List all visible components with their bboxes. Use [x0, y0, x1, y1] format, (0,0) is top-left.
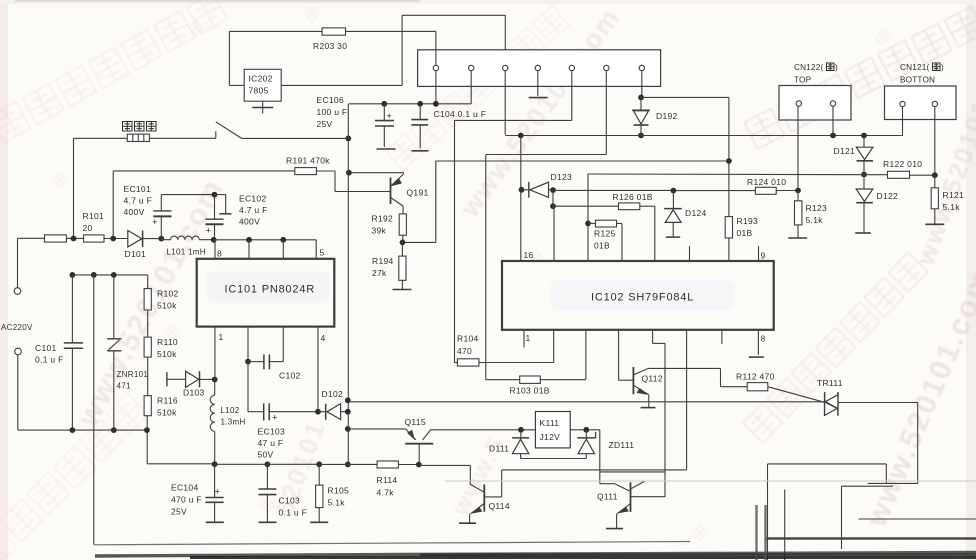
resistor R124	[755, 187, 776, 194]
wire switch to rail	[242, 137, 349, 139]
svg-text:R123: R123	[806, 203, 828, 213]
transistor Q191 (PNP)	[390, 178, 392, 205]
node rail2 C103	[265, 461, 271, 467]
wire R122 right	[910, 174, 935, 176]
diode D102	[318, 411, 326, 413]
node rail2 EC104	[212, 461, 218, 467]
node D102 out	[345, 409, 351, 415]
pin 2 circle	[469, 65, 474, 70]
svg-text:EC102: EC102	[239, 194, 267, 204]
wire Q112 emitter ground	[648, 395, 650, 408]
svg-text:J12V: J12V	[540, 432, 561, 442]
resistor R191	[295, 168, 317, 175]
svg-text:9: 9	[761, 251, 766, 261]
wire line A to IC pin	[686, 331, 688, 470]
wire R103 to IC pin	[540, 379, 586, 381]
switch S arm	[216, 122, 242, 139]
node D121 top	[861, 133, 867, 139]
wire R122 line	[864, 174, 888, 176]
node y275 mid	[91, 272, 97, 278]
node D123 right lower	[550, 203, 556, 209]
svg-text:R101: R101	[83, 211, 105, 221]
node D123 right upper	[550, 187, 556, 193]
connector CN121 box	[885, 86, 957, 120]
wire y275 line	[72, 274, 147, 276]
svg-text:5.1k: 5.1k	[806, 215, 824, 225]
capacitor C101	[64, 342, 83, 344]
svg-text:C104 0.1 u F: C104 0.1 u F	[434, 109, 487, 119]
svg-text:TR111: TR111	[817, 378, 843, 388]
wire D102 to Q115	[348, 428, 406, 430]
svg-text:16: 16	[524, 250, 534, 260]
svg-text:Q111: Q111	[597, 492, 618, 502]
node rail1 R116	[144, 427, 150, 433]
diode D103 anode bar	[166, 372, 168, 386]
wire IC pin jog to Q111 collector	[652, 331, 654, 343]
svg-text:50V: 50V	[258, 450, 274, 460]
capacitor C104	[419, 104, 421, 120]
wire R191 to Q191 base	[316, 170, 335, 172]
svg-text:400V: 400V	[124, 207, 145, 217]
resistor R123	[797, 191, 799, 201]
svg-text:+: +	[272, 413, 278, 424]
svg-text:8: 8	[217, 249, 222, 259]
wire R126 line	[553, 205, 619, 207]
svg-text:R203 30: R203 30	[313, 41, 347, 51]
scan artifact dark band	[95, 553, 976, 557]
wire R101 to D101	[104, 238, 128, 240]
svg-text:4: 4	[321, 333, 326, 343]
pin stub IC101 bottom2	[247, 327, 249, 362]
wire R203 top line y31	[229, 30, 436, 32]
wire R191 line	[113, 170, 295, 172]
scan tint IC102	[550, 280, 735, 310]
wire bottom return y544.8	[93, 274, 95, 276]
inductor L102	[214, 380, 216, 396]
wire y173.8 sense line	[588, 173, 864, 176]
svg-text:470 u F: 470 u F	[171, 495, 202, 505]
pin stub IC102 top x689.5	[689, 246, 691, 261]
resistor R126	[619, 203, 640, 210]
svg-text:D192: D192	[656, 111, 678, 121]
svg-text:+: +	[206, 226, 212, 237]
diode D101	[128, 231, 142, 247]
wire line A y469.9	[502, 469, 687, 471]
node R121 top	[932, 172, 938, 178]
wire heater feed vertical x73.5	[73, 138, 75, 238]
wire rail2 left	[147, 463, 214, 465]
node y275 ZNR	[111, 272, 117, 278]
pin 3 circle	[503, 65, 508, 70]
svg-text:C102: C102	[279, 371, 301, 381]
node pin1 rail	[433, 101, 439, 107]
svg-text:): )	[941, 63, 944, 72]
wire EC101-EC102 top link	[161, 194, 214, 196]
wire scan fold line	[445, 480, 976, 482]
wire R112 to TR111 diagonal	[768, 387, 825, 403]
wire right lower line	[859, 518, 976, 520]
pin 5 circle	[569, 65, 574, 70]
node bus pin16 branch	[518, 133, 524, 139]
svg-text:R122 010: R122 010	[883, 159, 922, 169]
svg-text:R110: R110	[157, 337, 178, 347]
svg-text:20: 20	[83, 223, 93, 233]
wire CN121 pin1 down	[902, 107, 904, 136]
svg-text:R105: R105	[328, 486, 350, 496]
ground IC202	[262, 101, 264, 107]
pin IC102 to Q112 base	[618, 331, 620, 380]
wire IC202 right to top loop	[281, 84, 402, 86]
svg-text:100 u F: 100 u F	[317, 107, 348, 117]
op-amp U-IC202 regulator box	[244, 69, 281, 101]
pin 4 circle	[535, 65, 540, 70]
svg-text:Q114: Q114	[489, 501, 510, 511]
diode ZD111 (zener)	[585, 430, 587, 438]
wire Q115base to Q114	[419, 464, 471, 466]
diode D122	[863, 175, 865, 189]
svg-text:470: 470	[457, 346, 472, 356]
ground Q112	[641, 407, 656, 409]
ground R123	[788, 237, 807, 239]
terminal AC220V lower	[15, 348, 22, 355]
node D111 top	[518, 427, 524, 433]
svg-text:D122: D122	[877, 191, 899, 201]
node C104 rail	[417, 101, 423, 107]
svg-text:01B: 01B	[594, 241, 610, 251]
wire pin6 jog left down	[605, 71, 607, 155]
svg-text:25V: 25V	[317, 119, 333, 129]
resistor R101	[84, 235, 104, 242]
svg-text:R124 010: R124 010	[747, 177, 786, 187]
node IC101 top pin6 feed	[246, 237, 252, 243]
scan tint IC101	[206, 271, 330, 303]
wire pin4 to ground	[537, 71, 539, 96]
wire pin1 vertical	[435, 31, 437, 65]
node rail1 ZNR	[111, 427, 117, 433]
node R125 left	[585, 221, 591, 227]
svg-text:Q112: Q112	[642, 374, 663, 384]
svg-text:AC220V: AC220V	[1, 323, 33, 332]
wire R124 left	[673, 190, 755, 192]
svg-text:R116: R116	[157, 396, 178, 406]
node rail1 C101	[70, 427, 76, 433]
node rail2 R105	[316, 461, 322, 467]
resistor R116	[144, 396, 151, 416]
svg-text:C101: C101	[35, 343, 57, 353]
node R123 top	[795, 188, 801, 194]
svg-text:4.7 u F: 4.7 u F	[239, 205, 268, 215]
resistor R104	[455, 362, 458, 364]
pin stub IC101 top mid1	[248, 240, 250, 259]
wire R102-R110	[147, 310, 149, 337]
resistor R121	[934, 175, 936, 188]
label 发热盘 (heater plate)	[123, 122, 133, 132]
op-amp U-IC101 box	[197, 259, 335, 327]
pin stub IC101 bottom1	[214, 327, 216, 380]
wire y161 line	[436, 160, 729, 162]
wire heater line left	[74, 137, 128, 139]
ground R194	[393, 289, 412, 291]
node EC102 top	[212, 192, 218, 198]
wire +V rail y103.8	[349, 103, 471, 105]
wire AC line	[18, 237, 45, 239]
wire load box right	[885, 464, 887, 483]
wire pin2 down	[470, 71, 472, 104]
svg-text:D124: D124	[685, 208, 707, 218]
wire fuse to R101	[66, 237, 83, 239]
wire +18V long line y401.8	[348, 401, 824, 403]
svg-text:EC103: EC103	[258, 427, 286, 437]
svg-text:1: 1	[219, 332, 224, 342]
svg-text:D101: D101	[125, 249, 147, 259]
diode D111 (zener)	[520, 430, 522, 438]
svg-text:7805: 7805	[249, 86, 269, 96]
svg-text:5: 5	[320, 248, 325, 258]
resistor R194	[401, 242, 403, 256]
node Q191 emitter rail	[346, 170, 352, 176]
wire heater line mid	[149, 137, 215, 139]
pin CN122-1	[796, 101, 801, 106]
svg-text:+: +	[215, 487, 221, 498]
svg-text:L102: L102	[221, 406, 240, 415]
svg-text:400V: 400V	[239, 217, 260, 227]
node y275 C101	[70, 272, 76, 278]
svg-text:EC104: EC104	[171, 483, 199, 493]
switch S contact	[215, 131, 217, 138]
wire C101 column	[71, 275, 73, 343]
wire pin16 vertical	[520, 136, 522, 262]
svg-text:R121: R121	[943, 190, 965, 200]
resistor R203	[322, 28, 345, 35]
varistor ZNR101	[113, 275, 115, 339]
svg-text:8: 8	[761, 334, 766, 344]
capacitor C103	[266, 464, 268, 488]
wire R125 right down	[617, 223, 623, 225]
diode D123	[522, 189, 529, 191]
wire inner vertical	[784, 490, 786, 560]
svg-text:510k: 510k	[157, 408, 177, 418]
ground Q111	[606, 528, 623, 530]
wire rail2 seg3	[267, 463, 319, 465]
wire D123 node to IC pin	[553, 206, 555, 261]
svg-text:R114: R114	[377, 475, 398, 485]
transistor Q114 (NPN mirrored)	[470, 484, 483, 491]
wire Q191 emitter	[349, 172, 404, 174]
svg-text:4.7k: 4.7k	[377, 488, 395, 498]
svg-text:25V: 25V	[171, 507, 187, 517]
transistor Q112 (NPN)	[632, 367, 634, 394]
svg-text:R104: R104	[457, 334, 479, 344]
wire rail2 seg5	[398, 464, 418, 466]
node R192 R194 junction	[400, 240, 406, 246]
svg-text:01B: 01B	[737, 228, 753, 238]
node D192 bottom	[638, 133, 644, 139]
svg-text:IC101 PN8024R: IC101 PN8024R	[225, 284, 316, 296]
terminal AC220V upper	[14, 288, 21, 295]
svg-text:510k: 510k	[157, 349, 177, 359]
capacitor EC104	[214, 464, 216, 497]
wire R124 right	[776, 190, 798, 192]
node D103 L102	[212, 377, 218, 383]
pin stub IC102 top 9	[758, 246, 760, 261]
triac TR111	[824, 392, 826, 416]
pin IC102 pin8 ground	[757, 331, 759, 355]
diode D192	[640, 97, 642, 110]
pin 7 circle	[639, 65, 644, 70]
wire R126 right down	[640, 205, 655, 207]
svg-text:R193: R193	[737, 216, 759, 226]
wire relay right down	[599, 430, 601, 484]
svg-text:39k: 39k	[372, 226, 387, 236]
svg-text:R192: R192	[372, 214, 394, 224]
node ZD111 top	[583, 427, 589, 433]
node L101 out	[211, 237, 217, 243]
wire pin3 down to bus	[504, 71, 506, 135]
diode D121	[863, 136, 865, 147]
capacitor EC103	[263, 403, 265, 420]
svg-text:R125: R125	[594, 229, 616, 239]
capacitor C102	[248, 361, 264, 363]
pin CN121-2	[932, 101, 937, 106]
svg-text:CN121(: CN121(	[900, 63, 929, 72]
pin 1 circle	[433, 65, 438, 70]
node AC x73.5	[71, 236, 77, 242]
wire D111-ZD111 bottom	[521, 458, 587, 460]
node D124 top	[671, 188, 677, 194]
resistor R193	[728, 161, 730, 217]
svg-text:D111: D111	[489, 444, 509, 454]
node IC101 top pin7 feed	[280, 237, 286, 243]
svg-text:5.1k: 5.1k	[328, 498, 346, 508]
diode D103	[167, 378, 185, 380]
resistor R114	[377, 461, 398, 468]
wire TR111 bottom link	[868, 482, 918, 484]
connector CN122 box	[779, 86, 851, 121]
wire rail2 seg4	[319, 463, 377, 465]
svg-text:R112 470: R112 470	[736, 372, 775, 382]
node C102 left	[245, 359, 251, 365]
node D101 cathode	[158, 236, 164, 242]
ground D122	[855, 232, 871, 234]
resistor R105	[318, 464, 320, 485]
pin stub IC101 bottom4	[317, 327, 319, 412]
wire pin7 to D192 right loop	[641, 96, 729, 98]
op-amp U-IC102 MCU box	[502, 261, 774, 330]
node R191 takeoff	[110, 236, 116, 242]
resistor R102	[144, 289, 151, 310]
wire CN122 pin2 down	[832, 106, 834, 135]
svg-text:1.3mH: 1.3mH	[221, 418, 246, 427]
svg-text:+: +	[152, 217, 158, 228]
resistor R103	[486, 379, 520, 381]
svg-text:R126 01B: R126 01B	[613, 192, 653, 202]
svg-text:D102: D102	[322, 389, 344, 399]
svg-text:1: 1	[526, 333, 531, 343]
svg-text:47 u F: 47 u F	[258, 438, 284, 448]
wire line B	[600, 471, 665, 473]
wire EC103 feed	[247, 362, 249, 412]
node D123 left	[519, 187, 525, 193]
pin CN122-2	[830, 101, 835, 106]
svg-text:D123: D123	[551, 172, 573, 182]
wire relay line y429.8	[431, 429, 600, 431]
capacitor EC106	[383, 104, 385, 121]
svg-text:EC101: EC101	[124, 184, 152, 194]
wire CN122 pin1 down	[797, 106, 799, 190]
node +18V line	[345, 397, 351, 403]
wire D123 branch	[552, 190, 554, 206]
wire R125 feed vertical	[587, 174, 589, 261]
pin stub IC102 bottom 1	[523, 331, 525, 347]
node CN122 pin2 bus	[830, 133, 836, 139]
connector CN (7-pin) box	[418, 50, 661, 87]
svg-text:510k: 510k	[157, 301, 177, 311]
resistor R192	[402, 206, 404, 214]
svg-text:R103 01B: R103 01B	[510, 386, 550, 396]
svg-text:C103: C103	[279, 496, 301, 506]
wire pin7 down	[641, 71, 643, 98]
wire load box top	[768, 463, 887, 465]
svg-text:L101 1mH: L101 1mH	[167, 248, 206, 257]
node rail2 x347.8	[345, 462, 351, 468]
pin stub IC101 top mid2	[282, 240, 284, 259]
wire Q114 collector up	[501, 470, 503, 497]
wire R116 down corner	[146, 416, 148, 464]
ground Q114	[459, 522, 476, 524]
svg-text:471: 471	[117, 382, 131, 391]
relay K111 box	[535, 412, 570, 448]
capacitor EC101	[160, 195, 162, 211]
node pin7 junction	[638, 95, 644, 101]
pin 6 circle	[604, 65, 609, 70]
wire y190 line to D124/R124	[553, 189, 673, 191]
svg-text:CN122(: CN122(	[794, 63, 823, 72]
ground pin4	[529, 97, 548, 99]
svg-text:EC106: EC106	[317, 95, 345, 105]
resistor R122	[888, 171, 910, 178]
svg-text:TOP: TOP	[794, 76, 812, 85]
wire R104 to IC pin	[479, 362, 554, 364]
svg-text:R194: R194	[372, 256, 394, 266]
svg-text:IC102 SH79F084L: IC102 SH79F084L	[591, 292, 694, 304]
capacitor EC102	[214, 195, 216, 219]
svg-text:D103: D103	[183, 388, 205, 398]
wire CN121 pin2 down	[934, 107, 936, 176]
wire Q112 collector line	[648, 367, 720, 369]
node D121 bottom	[861, 172, 867, 178]
svg-text:ZNR101: ZNR101	[117, 370, 149, 379]
wire rail2 seg2	[215, 463, 268, 465]
wire L101 rail to pin5	[214, 239, 317, 241]
pin CN121-1	[900, 101, 905, 106]
node heater line	[345, 136, 351, 142]
node EC106 rail	[381, 101, 387, 107]
wire TR111 right	[838, 402, 918, 404]
svg-text:D121: D121	[834, 146, 856, 156]
svg-text:Q191: Q191	[407, 188, 429, 198]
svg-text:27k: 27k	[372, 268, 387, 278]
heater element box	[127, 134, 149, 141]
svg-text:0.1 u F: 0.1 u F	[279, 508, 308, 518]
svg-text:IC202: IC202	[249, 74, 273, 84]
svg-text:+: +	[387, 111, 392, 121]
wire bus y135.5	[505, 135, 902, 137]
wire IC202 left vertical	[228, 31, 230, 85]
svg-text:5.1k: 5.1k	[943, 202, 961, 212]
node D102 anode	[315, 409, 321, 415]
svg-text:K111: K111	[540, 418, 560, 428]
ground R121	[925, 223, 944, 225]
